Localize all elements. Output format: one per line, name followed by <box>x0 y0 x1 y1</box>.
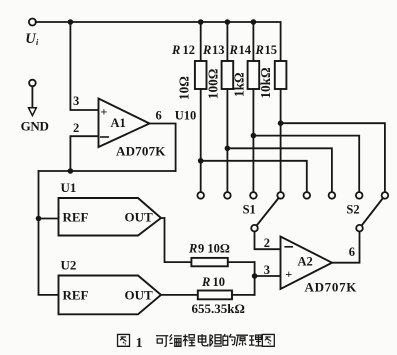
switch contact 4 <box>277 192 284 199</box>
switch S1 arm <box>257 198 279 226</box>
wire R12 crossover <box>201 161 307 192</box>
char yuan <box>236 335 248 346</box>
char de <box>223 334 235 345</box>
svg-text:655.35kΩ: 655.35kΩ <box>192 301 245 316</box>
wire A1 output <box>150 124 176 172</box>
switch S2 arm <box>362 198 383 226</box>
resistor R9 <box>191 258 227 266</box>
label R10 <box>201 275 225 289</box>
label Ui <box>25 31 39 47</box>
minus sign A1 <box>101 136 109 138</box>
wire R10 to node <box>232 294 255 296</box>
svg-text:10kΩ: 10kΩ <box>258 67 273 98</box>
svg-text:OUT: OUT <box>125 210 154 225</box>
wire R13 top lead <box>226 22 228 61</box>
wire U2 out to R10 <box>161 294 198 296</box>
svg-text:i: i <box>36 38 39 47</box>
dac U1 <box>59 198 162 236</box>
svg-text:R: R <box>171 43 180 57</box>
wire S1 common to A2 pin2 <box>255 231 281 249</box>
wire top bus <box>36 22 281 61</box>
svg-text:AD707K: AD707K <box>305 279 358 294</box>
svg-text:REF: REF <box>63 210 89 225</box>
wire node vertical <box>254 262 256 295</box>
svg-text:R: R <box>201 275 210 289</box>
node junction R15 tap <box>278 120 284 126</box>
svg-text:3: 3 <box>73 94 79 108</box>
svg-text:6: 6 <box>156 109 162 123</box>
wire REF bus left <box>39 171 59 295</box>
switch contact 3 <box>250 192 257 199</box>
wire A2 output to S2 <box>332 231 360 262</box>
wire R14 bottom lead <box>252 89 254 192</box>
svg-text:R: R <box>202 43 211 57</box>
svg-text:1: 1 <box>136 336 143 351</box>
svg-text:OUT: OUT <box>125 287 154 302</box>
label R9 <box>188 242 230 256</box>
op-amp A1 <box>99 99 150 148</box>
wire R9 to node <box>228 261 255 263</box>
svg-text:100Ω: 100Ω <box>205 69 220 99</box>
node junction R14 tap <box>251 133 257 139</box>
label R12 <box>171 43 195 57</box>
svg-text:A2: A2 <box>298 255 313 269</box>
svg-text:2: 2 <box>264 236 270 250</box>
node junction R13 tap <box>225 146 231 152</box>
switch contact 7 <box>356 192 363 199</box>
char dian <box>198 334 207 346</box>
svg-text:REF: REF <box>63 287 89 302</box>
svg-text:14: 14 <box>239 43 252 57</box>
dac U2 <box>59 276 162 315</box>
wire A2 pin3 <box>255 275 281 277</box>
wire R15 bottom lead <box>280 89 282 192</box>
svg-text:S2: S2 <box>346 202 359 216</box>
wire R15 crossover <box>281 123 385 192</box>
svg-text:6: 6 <box>349 245 355 259</box>
switch contact 2 <box>224 192 231 199</box>
wire GND stem <box>31 86 33 108</box>
label R14 <box>229 43 252 57</box>
char zu <box>210 334 222 346</box>
resistor R14 <box>248 61 260 89</box>
char li <box>249 335 262 346</box>
wire R14 crossover <box>253 136 359 193</box>
op-amp A2 <box>281 237 333 290</box>
resistor R15 <box>275 61 287 89</box>
svg-text:10: 10 <box>213 275 226 289</box>
terminal Ui <box>29 19 36 26</box>
node junction feedback <box>68 168 74 174</box>
wire A1 pin2 feedback <box>70 136 98 171</box>
char tu 1 <box>118 334 130 346</box>
switch S1 common <box>251 225 258 232</box>
wire A1 pin3 input <box>70 22 98 110</box>
wire R13 crossover <box>227 148 332 192</box>
svg-text:U2: U2 <box>61 258 77 273</box>
svg-text:10Ω: 10Ω <box>176 76 191 100</box>
svg-text:AD707K: AD707K <box>116 144 166 159</box>
svg-text:GND: GND <box>21 119 49 134</box>
switch contact 8 <box>382 192 389 199</box>
svg-text:R: R <box>229 43 238 57</box>
wire U1 out to R9 <box>161 218 191 262</box>
svg-text:+: + <box>101 105 108 119</box>
minus sign A2 <box>285 246 292 248</box>
svg-text:+: + <box>285 267 292 281</box>
node junction R14 top <box>251 19 257 25</box>
svg-text:R: R <box>188 242 197 256</box>
label R13 <box>202 43 225 57</box>
wire R12 bottom lead <box>200 89 202 192</box>
char bian <box>169 334 181 346</box>
svg-text:9 10Ω: 9 10Ω <box>198 242 230 256</box>
node junction U1 REF <box>36 216 42 222</box>
switch contact 6 <box>329 192 336 199</box>
terminal GND <box>29 80 36 87</box>
switch contact 1 <box>197 192 204 199</box>
node junction R12 tap <box>198 158 204 164</box>
char cheng <box>183 334 195 346</box>
svg-text:U1: U1 <box>61 180 77 195</box>
resistor R10 <box>198 291 232 300</box>
svg-text:1kΩ: 1kΩ <box>232 72 247 97</box>
label R15 <box>255 43 278 57</box>
switch contact 5 <box>304 192 311 199</box>
svg-text:2: 2 <box>73 121 79 135</box>
char tu 2 <box>262 334 274 346</box>
svg-text:S1: S1 <box>243 202 256 216</box>
ground arrow <box>29 108 37 116</box>
svg-text:R: R <box>255 43 264 57</box>
svg-text:U10: U10 <box>175 109 197 123</box>
resistor R12 <box>195 61 207 89</box>
svg-text:12: 12 <box>183 43 196 57</box>
svg-text:13: 13 <box>212 43 225 57</box>
svg-text:15: 15 <box>265 43 278 57</box>
svg-text:A1: A1 <box>111 116 126 130</box>
wire R12 top lead <box>200 22 202 61</box>
switch S2 common <box>356 225 363 232</box>
char ke <box>156 336 168 347</box>
node junction A2 pin3 <box>252 273 258 279</box>
node junction R13 top <box>225 19 231 25</box>
wire feedback bus <box>39 170 176 172</box>
node junction R12 top <box>198 19 204 25</box>
resistor R13 <box>222 61 234 89</box>
wire U1 REF stub <box>39 218 59 220</box>
svg-text:3: 3 <box>264 263 270 277</box>
wire R13 bottom lead <box>226 89 228 192</box>
wire R14 top lead <box>252 22 254 61</box>
node junction A1 input <box>68 19 74 25</box>
